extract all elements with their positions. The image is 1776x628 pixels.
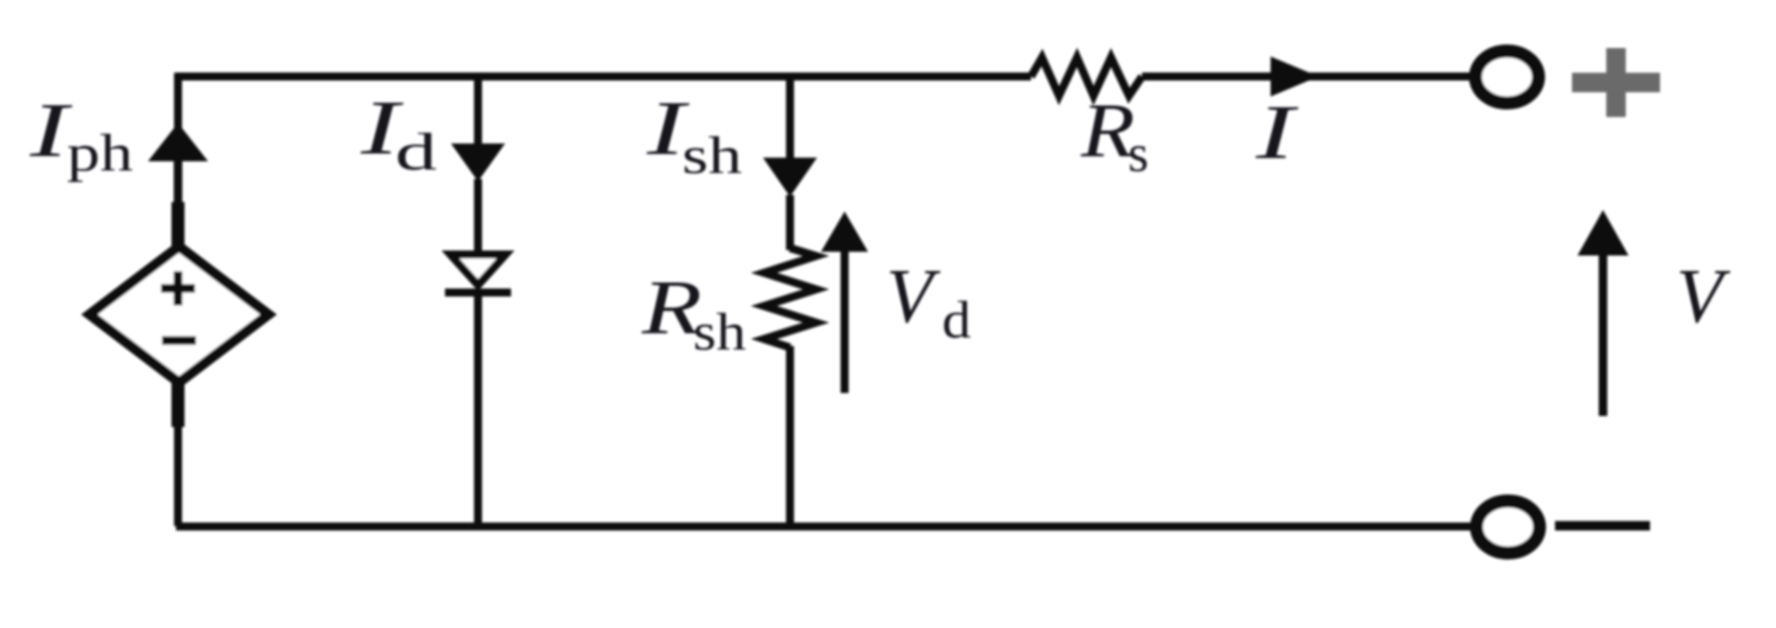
svg-text:d: d xyxy=(395,124,437,182)
minus sign inside source xyxy=(162,336,196,345)
dependent current source diamond Iph xyxy=(90,247,269,383)
wire diode branch middle xyxy=(474,179,482,253)
wire shunt branch lower xyxy=(786,346,794,526)
plus sign output polarity xyxy=(1572,48,1660,117)
svg-text:d: d xyxy=(942,292,971,350)
wire shunt branch upper xyxy=(786,73,794,163)
svg-text:s: s xyxy=(1128,125,1149,183)
svg-text:V: V xyxy=(1676,253,1731,339)
wire diode branch lower xyxy=(474,290,482,526)
arrow I output current (right) xyxy=(1271,57,1319,97)
lead stub above source U1 xyxy=(172,202,185,248)
arrow Vd head (up) xyxy=(821,212,868,252)
terminal negative output xyxy=(1477,501,1540,553)
wire left branch upper xyxy=(174,73,182,132)
arrow V voltage reference line xyxy=(1599,252,1608,416)
arrow V head (up) xyxy=(1578,210,1629,256)
diode D1 triangle xyxy=(451,255,506,286)
diode D1 cathode bar xyxy=(445,289,511,297)
terminal positive output xyxy=(1476,51,1539,103)
wire bottom bus xyxy=(176,523,1472,531)
arrow Ish current direction (down) xyxy=(763,158,817,197)
wire top bus right of Rs xyxy=(1142,73,1471,81)
svg-text:sh: sh xyxy=(693,304,746,362)
plus sign inside source xyxy=(161,271,195,305)
resistor Rs zigzag xyxy=(1031,58,1142,96)
minus sign output polarity xyxy=(1555,521,1650,531)
arrow Id current direction (down) xyxy=(451,144,505,182)
svg-text:ph: ph xyxy=(67,125,133,183)
wire left branch between arrow and source xyxy=(174,160,183,204)
svg-text:V: V xyxy=(886,253,941,339)
arrow Iph current direction (up) xyxy=(148,123,208,161)
wire top bus xyxy=(176,73,1031,81)
wire diode branch upper xyxy=(474,73,482,150)
wire left branch lower xyxy=(174,426,182,526)
svg-text:I: I xyxy=(1255,89,1299,175)
svg-text:R: R xyxy=(1080,87,1135,173)
svg-text:sh: sh xyxy=(682,127,742,185)
resistor Rsh zigzag xyxy=(764,248,816,348)
lead stub below source U1 xyxy=(172,381,185,427)
arrow Vd voltage reference line xyxy=(841,249,849,393)
wire shunt branch middle xyxy=(786,195,794,250)
